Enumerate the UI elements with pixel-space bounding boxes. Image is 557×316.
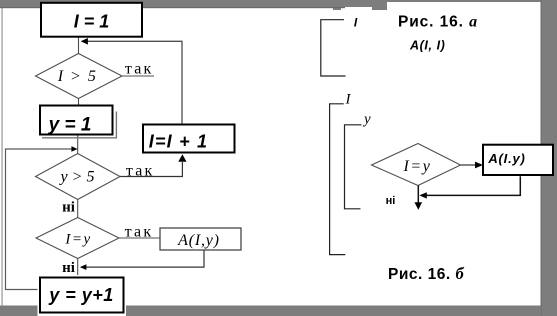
svg-text:y = y+1: y = y+1 bbox=[48, 285, 114, 305]
svg-text:так: так bbox=[125, 224, 154, 241]
svg-text:ні: ні bbox=[62, 260, 75, 276]
svg-text:I: I bbox=[345, 92, 352, 108]
svg-text:A(I, I): A(I, I) bbox=[409, 39, 445, 53]
svg-text:I=y: I=y bbox=[402, 158, 431, 175]
svg-text:ні: ні bbox=[386, 195, 396, 207]
svg-text:I: I bbox=[354, 16, 358, 30]
svg-text:y: y bbox=[362, 112, 371, 128]
svg-text:I=y: I=y bbox=[64, 232, 91, 248]
svg-text:y = 1: y = 1 bbox=[48, 115, 92, 136]
svg-text:так: так bbox=[125, 61, 154, 78]
svg-text:A(I.y): A(I.y) bbox=[487, 151, 525, 166]
svg-text:так: так bbox=[126, 163, 155, 180]
svg-text:A(I,y): A(I,y) bbox=[177, 232, 220, 249]
svg-text:y > 5: y > 5 bbox=[59, 169, 95, 186]
svg-text:I=I + 1: I=I + 1 bbox=[149, 132, 208, 152]
svg-text:Рис. 16. а: Рис. 16. а bbox=[398, 14, 478, 31]
svg-text:ні: ні bbox=[62, 200, 75, 216]
svg-text:I = 1: I = 1 bbox=[74, 12, 110, 32]
svg-text:I > 5: I > 5 bbox=[57, 68, 98, 85]
svg-text:Рис. 16. б: Рис. 16. б bbox=[388, 264, 464, 283]
